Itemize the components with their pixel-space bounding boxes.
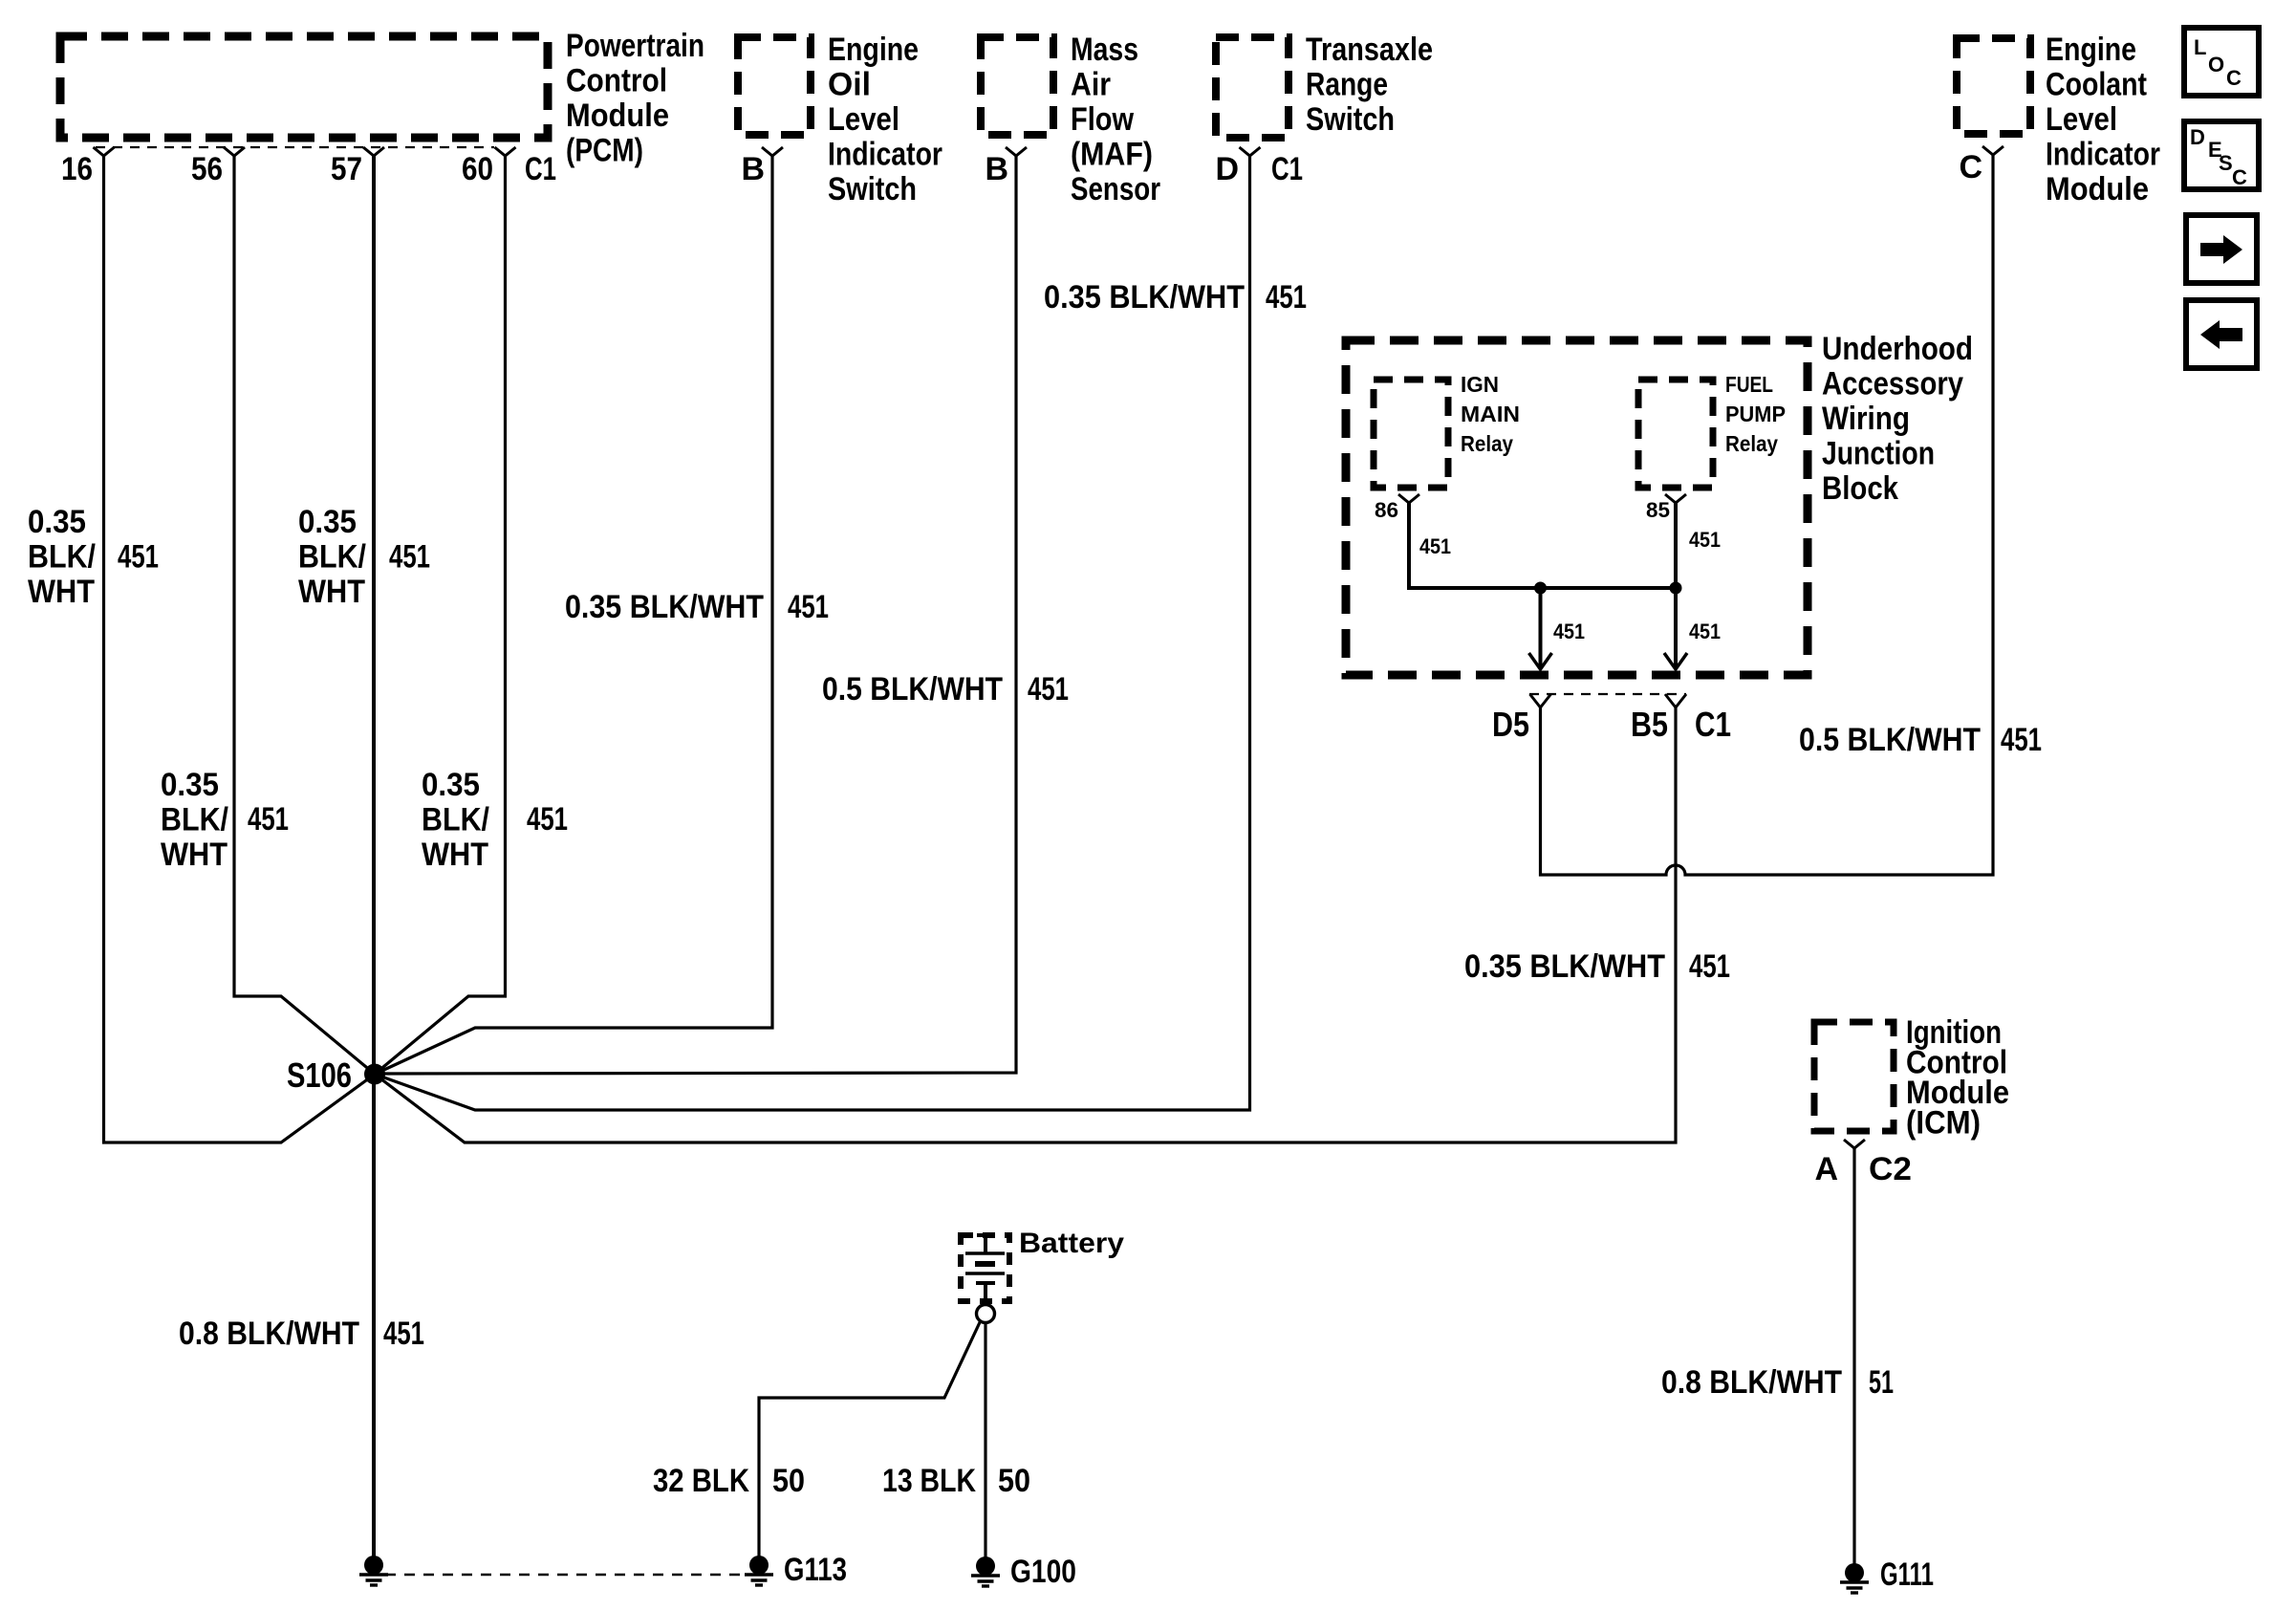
pin D fork (Transaxle Range Switch) bbox=[1240, 147, 1261, 156]
svg-text:Junction: Junction bbox=[1822, 436, 1935, 472]
pin 57 fork bbox=[363, 147, 384, 156]
svg-text:D5: D5 bbox=[1492, 705, 1529, 744]
pin 16 fork bbox=[94, 147, 115, 156]
svg-text:B: B bbox=[985, 151, 1008, 187]
svg-text:451: 451 bbox=[118, 539, 159, 576]
relay FUEL PUMP Relay dashed box bbox=[1638, 380, 1713, 488]
pin C fork (Engine Coolant Level Indicator Module) bbox=[1982, 146, 2004, 155]
svg-text:Relay: Relay bbox=[1461, 431, 1513, 456]
svg-text:Module: Module bbox=[2046, 171, 2149, 207]
module Mass Air Flow (MAF) Sensor dashed box bbox=[981, 37, 1053, 135]
svg-text:16: 16 bbox=[61, 151, 93, 187]
ground G111 bbox=[1845, 1563, 1864, 1582]
svg-text:B: B bbox=[741, 151, 765, 187]
svg-text:Sensor: Sensor bbox=[1071, 171, 1160, 207]
svg-text:O: O bbox=[2208, 53, 2224, 76]
legend left-arrow box bbox=[2186, 300, 2257, 368]
pin B5 fork bbox=[1665, 694, 1686, 707]
battery plate short bbox=[975, 1261, 995, 1267]
junction dot 85 wire bbox=[1670, 582, 1682, 595]
svg-text:Indicator: Indicator bbox=[828, 137, 942, 173]
wire tie point down to C1 D5 (451) bbox=[1539, 588, 1543, 667]
svg-text:0.35: 0.35 bbox=[422, 767, 480, 803]
svg-text:50: 50 bbox=[998, 1463, 1030, 1499]
ground at S106 wire bottom bbox=[364, 1556, 383, 1575]
svg-text:C: C bbox=[1959, 149, 1982, 185]
svg-text:C1: C1 bbox=[525, 151, 556, 187]
svg-text:Engine: Engine bbox=[828, 32, 919, 68]
svg-text:(PCM): (PCM) bbox=[566, 133, 643, 169]
svg-text:C: C bbox=[2226, 66, 2242, 90]
pin D5 fork bbox=[1530, 694, 1551, 707]
svg-text:Range: Range bbox=[1306, 67, 1388, 103]
svg-text:PUMP: PUMP bbox=[1725, 402, 1786, 426]
svg-text:451: 451 bbox=[1419, 534, 1451, 558]
svg-text:Mass: Mass bbox=[1071, 32, 1138, 68]
svg-text:Module: Module bbox=[566, 98, 669, 134]
svg-text:WHT: WHT bbox=[28, 574, 95, 610]
pin 56 fork bbox=[224, 147, 245, 156]
ground G100 bbox=[976, 1556, 995, 1576]
svg-text:451: 451 bbox=[788, 589, 829, 625]
svg-text:0.35 BLK/WHT: 0.35 BLK/WHT bbox=[565, 589, 764, 625]
pin 85 fork (FUEL PUMP Relay) bbox=[1665, 494, 1686, 503]
svg-text:451: 451 bbox=[1553, 620, 1585, 643]
wire Transaxle pin D to S106 (0.35 BLK/WHT 451) bbox=[375, 156, 1250, 1110]
svg-text:Transaxle: Transaxle bbox=[1306, 32, 1433, 68]
svg-text:32 BLK: 32 BLK bbox=[653, 1463, 749, 1499]
svg-text:Level: Level bbox=[2046, 101, 2117, 138]
svg-text:Coolant: Coolant bbox=[2046, 67, 2147, 103]
svg-text:S: S bbox=[2219, 151, 2233, 175]
svg-text:C1: C1 bbox=[1695, 705, 1731, 744]
wire battery to G113 (32 BLK 50) bbox=[759, 1320, 981, 1565]
svg-text:D: D bbox=[2190, 125, 2205, 149]
svg-text:A: A bbox=[1814, 1151, 1838, 1187]
svg-text:85: 85 bbox=[1646, 498, 1670, 522]
svg-text:51: 51 bbox=[1869, 1364, 1894, 1401]
svg-text:BLK/: BLK/ bbox=[422, 802, 489, 838]
battery positive terminal bbox=[977, 1233, 994, 1237]
module Engine Coolant Level Indicator Module dashed box bbox=[1957, 38, 2030, 134]
svg-text:451: 451 bbox=[389, 539, 430, 576]
svg-text:451: 451 bbox=[1689, 948, 1730, 985]
svg-text:451: 451 bbox=[1266, 279, 1307, 315]
wire pin60 to S106 (0.35 BLK/WHT 451) bbox=[375, 156, 506, 1075]
connector dashed line C1 D5-B5 bbox=[1529, 693, 1686, 695]
wire D5 to Engine Coolant pin C (0.5 BLK/WHT 451) bbox=[1541, 155, 1994, 875]
svg-text:Powertrain: Powertrain bbox=[566, 28, 704, 64]
svg-text:MAIN: MAIN bbox=[1461, 402, 1520, 426]
svg-text:WHT: WHT bbox=[298, 574, 365, 610]
pin B fork (MAF Sensor) bbox=[1006, 147, 1027, 156]
pin A fork (ICM) bbox=[1844, 1140, 1865, 1148]
svg-text:(ICM): (ICM) bbox=[1906, 1105, 1981, 1142]
wire Engine Oil pin B to S106 (0.35 BLK/WHT 451) bbox=[375, 156, 772, 1075]
svg-text:B5: B5 bbox=[1631, 705, 1668, 744]
splice S106 junction dot bbox=[364, 1064, 385, 1085]
legend DESC box bbox=[2184, 121, 2259, 189]
svg-text:BLK/: BLK/ bbox=[28, 539, 96, 576]
battery dashed box bbox=[961, 1235, 1009, 1301]
svg-text:Block: Block bbox=[1822, 470, 1898, 507]
battery plate long lower bbox=[965, 1272, 1005, 1274]
svg-text:G100: G100 bbox=[1010, 1554, 1076, 1590]
svg-text:Air: Air bbox=[1071, 67, 1111, 103]
svg-text:Switch: Switch bbox=[828, 171, 917, 207]
module PCM dashed box bbox=[60, 36, 548, 138]
svg-text:50: 50 bbox=[772, 1463, 805, 1499]
svg-text:C: C bbox=[2232, 165, 2247, 189]
svg-text:WHT: WHT bbox=[422, 837, 488, 873]
svg-text:451: 451 bbox=[527, 801, 568, 838]
svg-text:0.35: 0.35 bbox=[298, 504, 357, 540]
battery negative terminal bbox=[976, 1281, 995, 1285]
wire relay 86 to tie point (451) bbox=[1409, 503, 1676, 588]
legend right-arrow bbox=[2200, 235, 2242, 264]
svg-text:0.35 BLK/WHT: 0.35 BLK/WHT bbox=[1464, 948, 1665, 985]
connector dashed line under PCM C1 bbox=[96, 146, 494, 148]
svg-text:Indicator: Indicator bbox=[2046, 137, 2160, 173]
svg-text:Engine: Engine bbox=[2046, 32, 2136, 68]
module Engine Oil Level Indicator Switch dashed box bbox=[738, 37, 811, 135]
svg-text:451: 451 bbox=[383, 1316, 424, 1352]
svg-text:451: 451 bbox=[1689, 528, 1721, 552]
ground G113 bbox=[749, 1556, 769, 1575]
svg-text:Oil: Oil bbox=[828, 67, 871, 103]
junction dot D5 branch bbox=[1534, 582, 1547, 595]
svg-text:0.5 BLK/WHT: 0.5 BLK/WHT bbox=[822, 671, 1003, 707]
svg-text:0.8 BLK/WHT: 0.8 BLK/WHT bbox=[1661, 1364, 1842, 1401]
svg-text:(MAF): (MAF) bbox=[1071, 137, 1153, 173]
svg-text:86: 86 bbox=[1375, 498, 1398, 522]
wire pin16 to S106 (0.35 BLK/WHT 451) bbox=[104, 156, 376, 1142]
wire pin56 to S106 (0.35 BLK/WHT 451) bbox=[234, 156, 375, 1075]
svg-text:Level: Level bbox=[828, 101, 899, 138]
svg-text:56: 56 bbox=[191, 151, 223, 187]
svg-text:BLK/: BLK/ bbox=[161, 802, 228, 838]
svg-text:0.35: 0.35 bbox=[161, 767, 219, 803]
legend right-arrow box bbox=[2186, 215, 2257, 283]
svg-text:Switch: Switch bbox=[1306, 101, 1395, 138]
arrowhead into C1 D5 bbox=[1529, 653, 1552, 669]
wire battery to G100 (13 BLK 50) bbox=[984, 1322, 986, 1566]
wire MAF pin B to S106 (0.5 BLK/WHT 451) bbox=[375, 156, 1016, 1074]
svg-text:60: 60 bbox=[462, 151, 493, 187]
svg-text:0.35: 0.35 bbox=[28, 504, 86, 540]
svg-text:Battery: Battery bbox=[1019, 1228, 1124, 1259]
svg-text:451: 451 bbox=[2001, 722, 2042, 758]
svg-text:Accessory: Accessory bbox=[1822, 366, 1963, 402]
svg-text:C1: C1 bbox=[1271, 151, 1303, 187]
relay IGN MAIN Relay dashed box bbox=[1374, 380, 1448, 488]
svg-text:FUEL: FUEL bbox=[1725, 372, 1773, 397]
wire relay 85 down to C1 B5 (451) bbox=[1674, 503, 1678, 667]
svg-text:57: 57 bbox=[331, 151, 362, 187]
svg-text:Wiring: Wiring bbox=[1822, 401, 1910, 437]
wire pin57 through S106 to ground (main vertical) bbox=[372, 156, 376, 1565]
svg-text:L: L bbox=[2194, 35, 2206, 59]
svg-text:0.8 BLK/WHT: 0.8 BLK/WHT bbox=[179, 1316, 359, 1352]
svg-text:Control: Control bbox=[566, 63, 667, 99]
wire B5 to S106 (0.35 BLK/WHT 451) bbox=[375, 707, 1676, 1142]
legend LOC box bbox=[2184, 28, 2259, 96]
svg-text:Flow: Flow bbox=[1071, 101, 1134, 138]
module Underhood Accessory Wiring Junction Block dashed box bbox=[1346, 340, 1808, 675]
module Transaxle Range Switch dashed box bbox=[1216, 37, 1289, 138]
svg-text:0.5 BLK/WHT: 0.5 BLK/WHT bbox=[1799, 722, 1981, 758]
pin 86 fork (IGN MAIN Relay) bbox=[1398, 494, 1419, 503]
ground dashed bond line bbox=[385, 1574, 745, 1577]
svg-text:Underhood: Underhood bbox=[1822, 331, 1973, 367]
module Ignition Control Module (ICM) dashed box bbox=[1814, 1022, 1894, 1131]
battery negative post circle bbox=[977, 1305, 995, 1323]
svg-text:BLK/: BLK/ bbox=[298, 539, 366, 576]
svg-text:IGN: IGN bbox=[1461, 372, 1499, 397]
svg-text:Relay: Relay bbox=[1725, 431, 1778, 456]
pin B fork (Engine Oil Level Indicator Switch) bbox=[762, 147, 783, 156]
svg-text:451: 451 bbox=[1028, 671, 1069, 707]
svg-text:S106: S106 bbox=[287, 1055, 352, 1095]
svg-text:0.35 BLK/WHT: 0.35 BLK/WHT bbox=[1044, 279, 1245, 315]
wire ICM pin A to G111 (0.8 BLK/WHT 51) bbox=[1852, 1148, 1855, 1573]
legend left-arrow bbox=[2200, 320, 2242, 349]
svg-text:C2: C2 bbox=[1869, 1151, 1912, 1187]
battery plate long upper bbox=[965, 1251, 1005, 1254]
svg-text:G111: G111 bbox=[1880, 1556, 1934, 1593]
svg-text:13 BLK: 13 BLK bbox=[882, 1463, 976, 1499]
svg-text:G113: G113 bbox=[784, 1552, 847, 1588]
svg-text:451: 451 bbox=[248, 801, 289, 838]
svg-text:D: D bbox=[1215, 151, 1239, 187]
pin 60 fork bbox=[495, 147, 516, 156]
svg-text:WHT: WHT bbox=[161, 837, 227, 873]
arrowhead into C1 B5 bbox=[1664, 653, 1687, 669]
svg-text:451: 451 bbox=[1689, 620, 1721, 643]
